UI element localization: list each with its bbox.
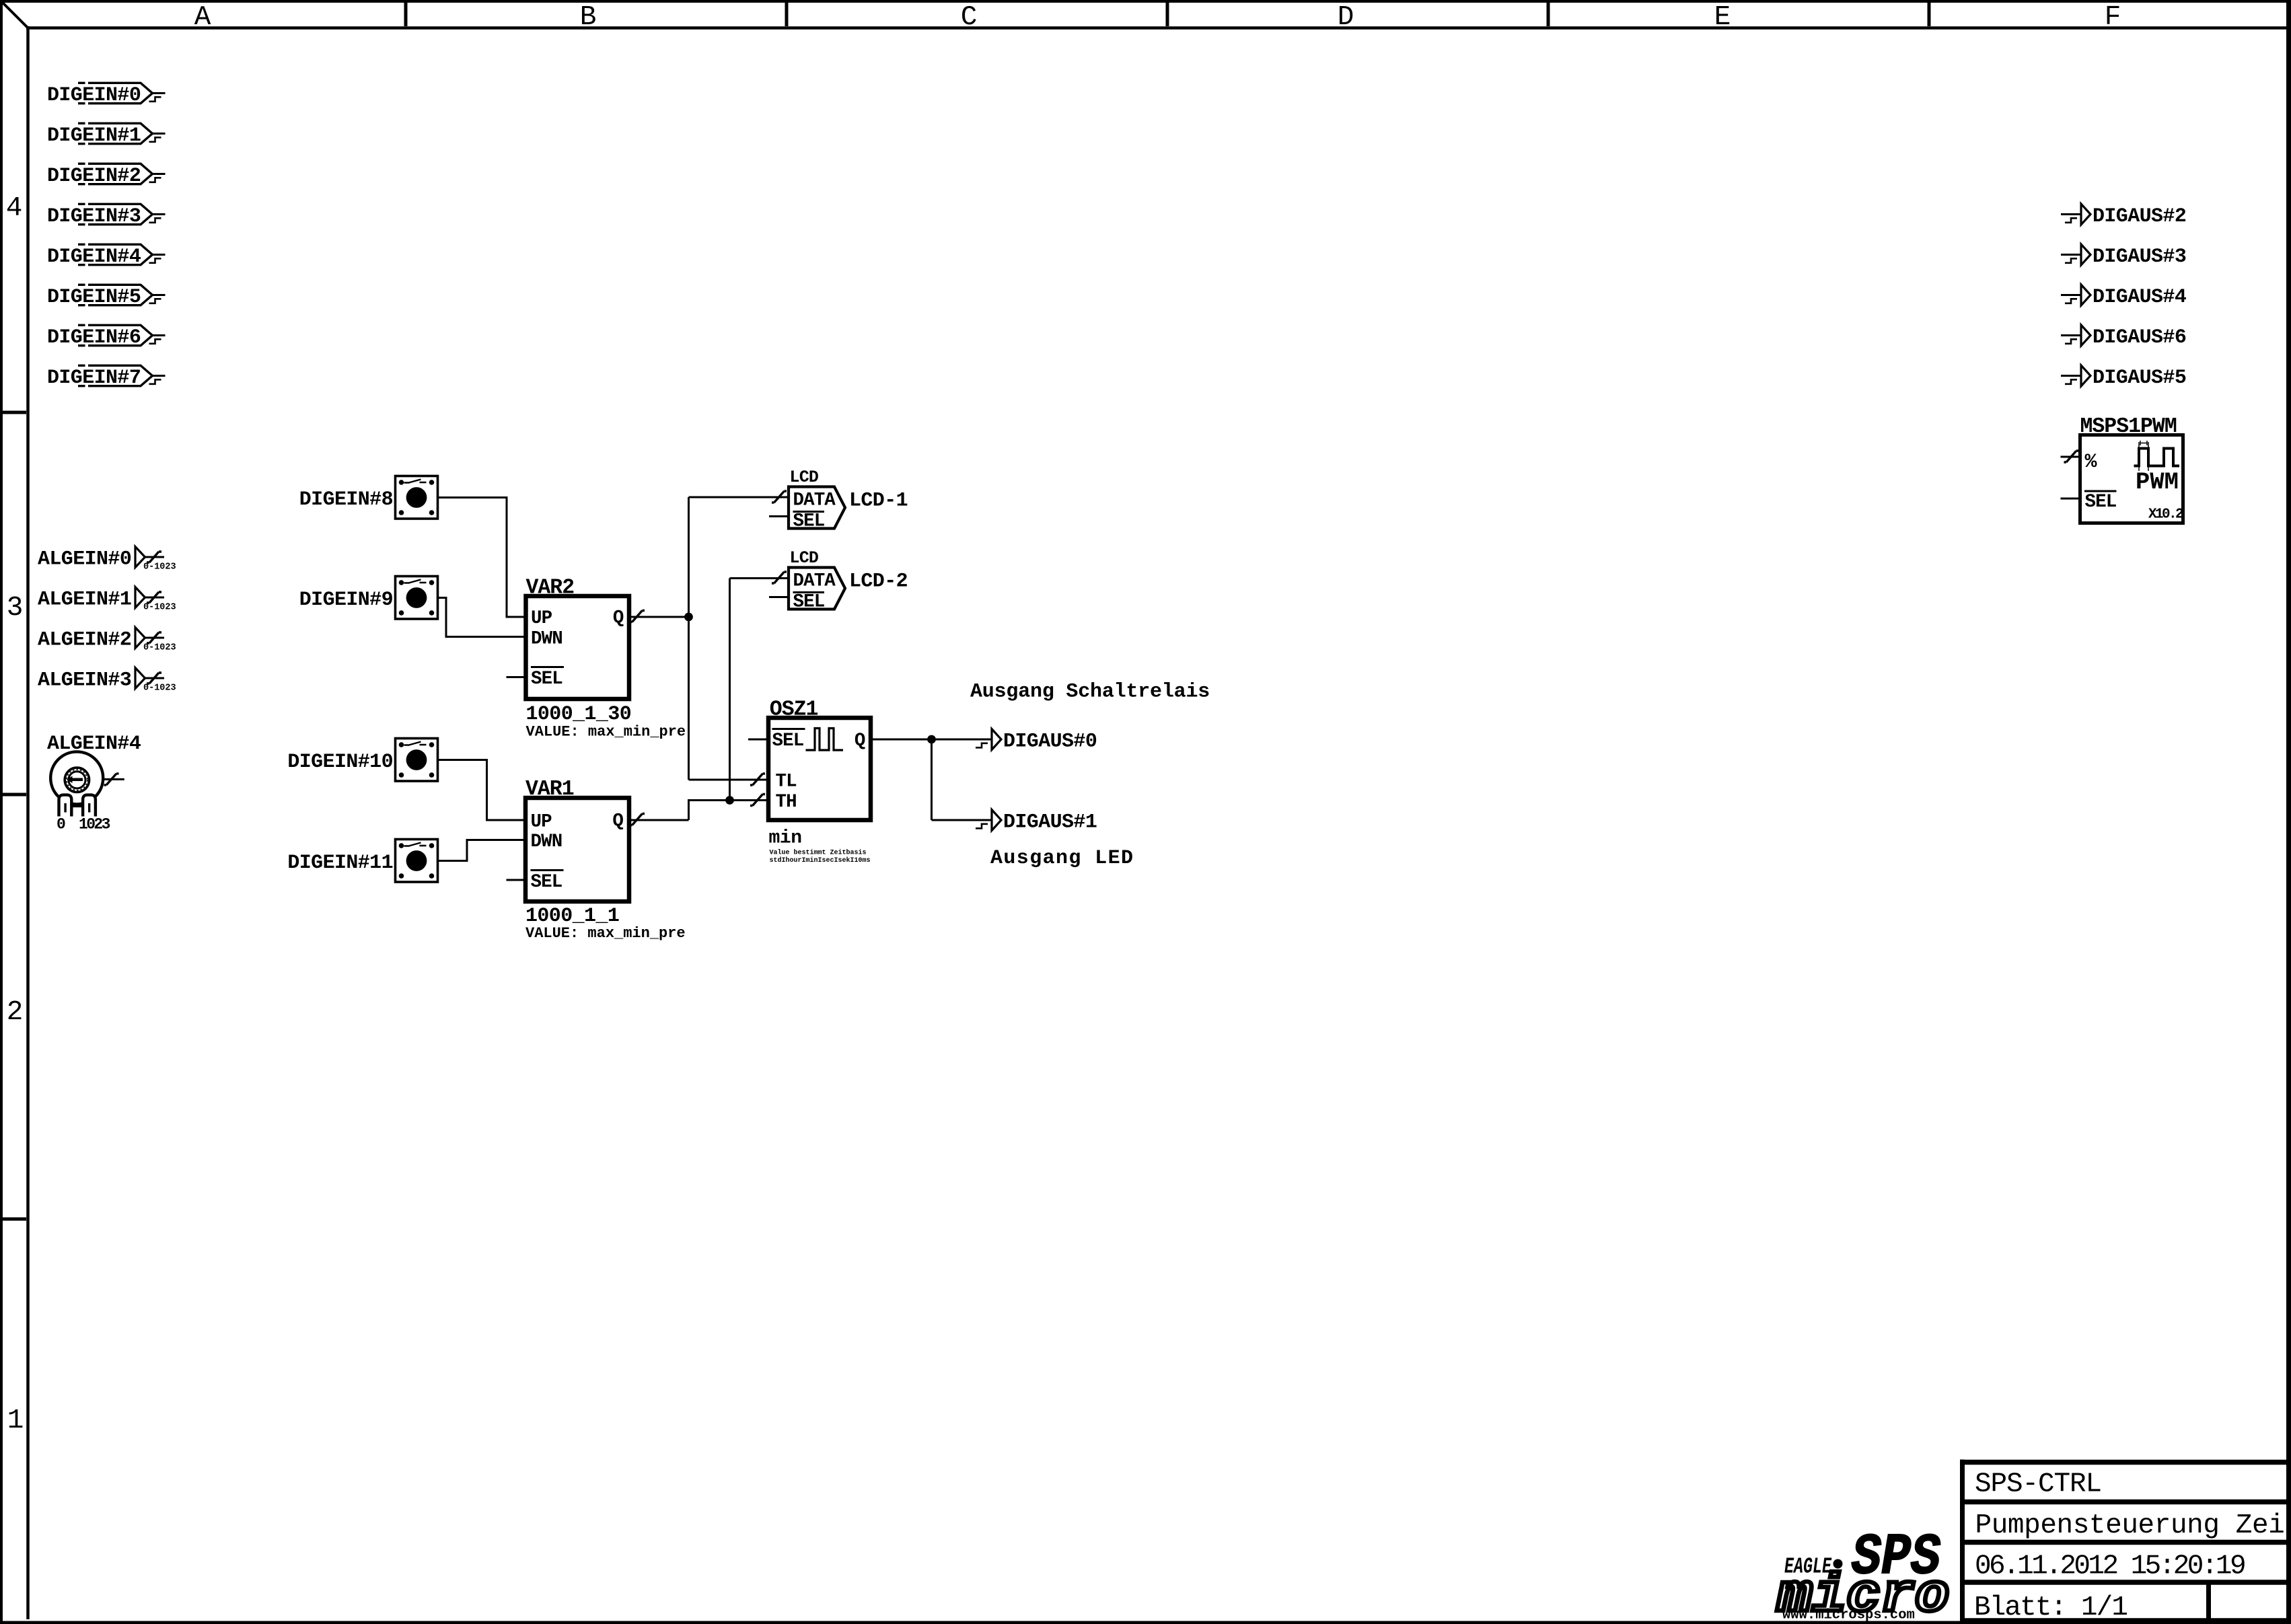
output flag DIGAUS#3	[2061, 244, 2186, 268]
wire OSZ1 SEL stub	[748, 739, 768, 741]
svg-text:E: E	[1714, 2, 1731, 33]
svg-text:VALUE: max_min_pre: VALUE: max_min_pre	[526, 724, 686, 741]
svg-text:%: %	[2085, 451, 2098, 474]
svg-text:LCD-2: LCD-2	[849, 570, 908, 593]
svg-text:Q: Q	[854, 731, 865, 751]
wire VAR1 SEL stub	[507, 879, 526, 881]
svg-text:D: D	[1338, 2, 1354, 33]
wire LCD-2 SEL stub	[769, 596, 789, 598]
wire VAR2 Q to LCD-1 / OSZ1 TL (vertical)	[688, 497, 690, 780]
svg-text:0-1023: 0-1023	[143, 562, 176, 573]
svg-text:TL: TL	[776, 772, 797, 792]
svg-text:Pumpensteuerung Zeitgesteuert: Pumpensteuerung Zeitgesteuert	[1975, 1510, 2291, 1541]
svg-text:SEL: SEL	[772, 731, 804, 751]
wire LCD-1 SEL stub	[769, 515, 789, 517]
wire LCD-2 DATA vertical	[729, 579, 731, 801]
svg-text:C: C	[961, 2, 978, 33]
svg-text:DIGAUS#1: DIGAUS#1	[1003, 811, 1097, 834]
svg-text:Q: Q	[613, 608, 624, 629]
svg-text:DIGAUS#6: DIGAUS#6	[2093, 326, 2186, 349]
svg-text:ALGEIN#4: ALGEIN#4	[47, 733, 141, 755]
svg-text:0-1023: 0-1023	[143, 603, 176, 613]
module LCD-2	[789, 548, 908, 613]
svg-text:SEL: SEL	[793, 592, 825, 613]
svg-text:DIGAUS#5: DIGAUS#5	[2093, 367, 2186, 390]
node junction TH/LCD2	[725, 796, 734, 805]
wire OSZ1 TL input	[689, 779, 769, 781]
wire VAR1 Q to OSZ1 TH	[689, 801, 769, 821]
svg-text:A: A	[194, 2, 211, 33]
svg-text:TH: TH	[776, 792, 797, 813]
svg-text:PWM: PWM	[2136, 468, 2179, 496]
svg-text:DWN: DWN	[531, 832, 562, 852]
analog input flag ALGEIN#3	[38, 668, 176, 694]
svg-text:SEL: SEL	[793, 511, 825, 532]
svg-text:ALGEIN#0: ALGEIN#0	[38, 548, 131, 571]
wire MSPS1PWM % input	[2061, 456, 2080, 458]
svg-text:LCD-1: LCD-1	[849, 490, 908, 513]
svg-text:1023: 1023	[79, 816, 110, 834]
pushbutton DIGEIN#8	[299, 476, 438, 519]
wire DIGEIN#10 to VAR1 UP	[438, 760, 526, 821]
svg-text:ALGEIN#2: ALGEIN#2	[38, 629, 131, 652]
output flag DIGAUS#0	[932, 729, 1097, 753]
svg-text:SEL: SEL	[531, 872, 562, 893]
potentiometer ALGEIN#4	[47, 733, 141, 834]
svg-text:DIGAUS#4: DIGAUS#4	[2093, 286, 2187, 309]
svg-text:1: 1	[7, 1405, 24, 1436]
pushbutton DIGEIN#9	[299, 577, 438, 620]
svg-text:ALGEIN#3: ALGEIN#3	[38, 669, 131, 692]
wire LCD-2 DATA input	[730, 577, 789, 579]
svg-text:www.microsps.com: www.microsps.com	[1782, 1608, 1915, 1623]
title block	[1960, 1460, 2291, 1624]
svg-text:Ausgang LED: Ausgang LED	[990, 847, 1134, 870]
svg-text:ALGEIN#1: ALGEIN#1	[38, 589, 131, 612]
svg-text:Ausgang Schaltrelais: Ausgang Schaltrelais	[970, 681, 1210, 704]
module VAR2	[526, 577, 630, 700]
wire VAR2 Q output	[629, 616, 689, 618]
net flag DIGEIN#6	[47, 325, 166, 349]
output flag DIGAUS#2	[2061, 204, 2186, 228]
svg-text:LCD: LCD	[790, 548, 819, 568]
analog input flag ALGEIN#2	[38, 628, 176, 653]
svg-text:DWN: DWN	[531, 629, 562, 650]
analog input flag ALGEIN#0	[38, 547, 176, 573]
svg-text:DIGEIN#8: DIGEIN#8	[299, 488, 393, 511]
wire MSPS1PWM SEL input	[2061, 498, 2080, 500]
net flag DIGEIN#5	[47, 285, 166, 309]
output flag DIGAUS#1	[932, 810, 1097, 834]
svg-text:2: 2	[7, 997, 24, 1028]
svg-text:UP: UP	[531, 608, 552, 629]
svg-text:DIGEIN#11: DIGEIN#11	[287, 852, 393, 875]
svg-text:1000_1_30: 1000_1_30	[526, 703, 632, 726]
analog input flag ALGEIN#1	[38, 587, 176, 613]
wire to DIGAUS#1 (vertical)	[931, 739, 933, 820]
pushbutton DIGEIN#11	[287, 840, 437, 883]
svg-text:Blatt: 1/1: Blatt: 1/1	[1974, 1592, 2127, 1623]
node junction VAR2Q/LCD1/TL	[684, 613, 693, 622]
svg-text:UP: UP	[531, 812, 552, 833]
svg-text:DIGAUS#3: DIGAUS#3	[2093, 246, 2186, 268]
net flag DIGEIN#2	[47, 163, 166, 188]
wire DIGEIN#8 to VAR2 UP	[438, 498, 526, 618]
wire OSZ1 Q output	[871, 739, 932, 741]
svg-text:LCD: LCD	[790, 468, 819, 487]
svg-text:DIGAUS#2: DIGAUS#2	[2093, 205, 2186, 228]
svg-text:SEL: SEL	[531, 669, 562, 690]
wire LCD-1 DATA input	[689, 496, 789, 499]
module OSZ1	[768, 698, 871, 821]
svg-text:DIGEIN#9: DIGEIN#9	[299, 589, 393, 612]
svg-text:B: B	[580, 2, 597, 33]
wire DIGEIN#11 to VAR1 DWN	[438, 840, 526, 861]
output flag DIGAUS#5	[2061, 365, 2186, 390]
svg-text:1000_1_1: 1000_1_1	[525, 905, 619, 928]
net flag DIGEIN#1	[47, 123, 166, 147]
wire VAR2 SEL stub	[507, 676, 526, 678]
svg-text:DATA: DATA	[793, 490, 836, 511]
svg-text:Q: Q	[612, 811, 623, 832]
net flag DIGEIN#0	[47, 83, 166, 107]
svg-text:min: min	[769, 828, 802, 849]
svg-text:Value bestimmt Zeitbasis: Value bestimmt Zeitbasis	[770, 849, 867, 857]
svg-text:VALUE: max_min_pre: VALUE: max_min_pre	[525, 925, 686, 942]
pushbutton DIGEIN#10	[287, 739, 437, 782]
logo EAGLE micro SPS	[1776, 1524, 1949, 1624]
module VAR1	[525, 778, 629, 901]
net flag DIGEIN#3	[47, 204, 166, 228]
output flag DIGAUS#4	[2061, 285, 2187, 309]
net flag DIGEIN#4	[47, 244, 166, 268]
svg-text:X10.2: X10.2	[2148, 507, 2183, 523]
svg-text:DATA: DATA	[793, 571, 836, 592]
svg-text:stdIhourIminIsecIsekI10ms: stdIhourIminIsecIsekI10ms	[770, 856, 871, 864]
wire VAR1 Q output	[629, 819, 689, 821]
svg-text:3: 3	[7, 593, 24, 624]
svg-text:DIGEIN#10: DIGEIN#10	[287, 751, 393, 774]
svg-text:4: 4	[6, 193, 23, 224]
net flag DIGEIN#7	[47, 365, 166, 390]
module MSPS1PWM	[2080, 415, 2183, 523]
svg-text:0-1023: 0-1023	[143, 643, 176, 653]
svg-text:0: 0	[57, 816, 65, 834]
svg-text:06.11.2012 15:20:19: 06.11.2012 15:20:19	[1975, 1551, 2245, 1582]
module LCD-1	[789, 468, 908, 532]
svg-text:SEL: SEL	[2085, 492, 2117, 513]
svg-text:SPS-CTRL: SPS-CTRL	[1975, 1469, 2101, 1500]
node junction Q/DIGAUS0/DIGAUS1	[927, 735, 936, 744]
svg-text:0-1023: 0-1023	[143, 684, 176, 694]
svg-text:F: F	[2105, 2, 2121, 33]
svg-text:DIGAUS#0: DIGAUS#0	[1003, 731, 1097, 753]
wire DIGEIN#9 to VAR2 DWN	[438, 598, 526, 637]
output flag DIGAUS#6	[2061, 325, 2186, 349]
